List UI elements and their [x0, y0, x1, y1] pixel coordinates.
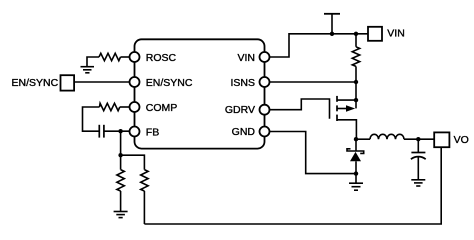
node divider junction — [118, 153, 122, 157]
VO terminal box — [434, 132, 449, 147]
op-amp U1 (controller IC body) — [135, 39, 265, 148]
wire COMP resistor to capacitor — [83, 107, 100, 131]
wire diode anode to ground node — [355, 161, 357, 173]
resistor R_FB_low — [117, 170, 124, 191]
svg-text:ISNS: ISNS — [230, 77, 255, 89]
wire GDRV pin to gate — [270, 99, 330, 119]
inductor L1 — [370, 134, 404, 139]
wire COMP pin to resistor — [120, 106, 130, 108]
pin VIN — [260, 52, 270, 62]
node EN/SYNC terminal box — [61, 75, 75, 90]
node switch node — [354, 137, 358, 141]
wire FB node down — [120, 131, 122, 155]
svg-text:GND: GND — [232, 126, 256, 138]
wire ISNS pin to node — [270, 81, 357, 83]
transistor Q1 (NMOS) — [336, 96, 338, 121]
ground (power) — [355, 174, 357, 183]
capacitor C_OUT (polarized) — [411, 152, 425, 154]
svg-text:GDRV: GDRV — [225, 104, 255, 116]
node rail-bar junction — [330, 32, 334, 36]
wire junction to lower resistor — [120, 155, 122, 169]
wire bottom feedback rail — [144, 147, 441, 224]
svg-text:VO: VO — [454, 134, 469, 146]
wire GND pin to ground node — [270, 132, 357, 174]
node rail-resistor junction — [354, 32, 358, 36]
resistor R_ISNS — [352, 47, 359, 67]
wire capacitor to FB node — [104, 130, 130, 132]
node ISNS junction — [354, 80, 358, 84]
pin GND — [260, 127, 270, 137]
wire EN/SYNC box to pin — [74, 81, 129, 83]
svg-text:EN/SYNC: EN/SYNC — [146, 77, 193, 89]
svg-text:FB: FB — [146, 126, 159, 138]
pin EN/SYNC — [130, 77, 140, 87]
resistor R_ROSC — [99, 53, 121, 60]
ground (FB divider) — [114, 212, 128, 218]
pin COMP — [130, 102, 140, 112]
wire VIN pin to input rail — [270, 34, 369, 57]
wire resistor to ground — [120, 191, 122, 211]
svg-text:COMP: COMP — [146, 102, 178, 114]
node drain junction — [354, 98, 358, 102]
pin ROSC — [130, 52, 140, 62]
svg-text:VIN: VIN — [237, 52, 255, 64]
node FB junction — [118, 129, 122, 133]
VIN terminal box — [368, 27, 382, 41]
ground (ROSC) — [81, 67, 95, 73]
resistor R_FB_top — [141, 170, 148, 191]
wire rail to sense resistor — [355, 34, 357, 47]
diode D1 (Schottky) — [347, 149, 364, 154]
wire output node to capacitor — [417, 139, 419, 152]
wire switch node to inductor — [356, 138, 370, 140]
node output junction — [416, 137, 420, 141]
pin GDRV — [260, 105, 270, 115]
wire resistor to ground corner — [87, 57, 99, 66]
wire ISNS node to MOSFET drain — [355, 82, 357, 108]
wire inductor to output node — [404, 138, 434, 140]
svg-text:ROSC: ROSC — [146, 52, 177, 64]
wire junction to upper divider resistor — [121, 155, 145, 169]
wire resistor to ISNS node — [355, 66, 357, 82]
capacitor C_COMP — [99, 125, 104, 138]
ground (output cap) — [411, 180, 425, 186]
svg-text:VIN: VIN — [387, 28, 405, 40]
pin ISNS — [260, 77, 270, 87]
node diode-ground junction — [354, 171, 358, 175]
wire ROSC pin to resistor — [121, 56, 130, 58]
wire capacitor to ground — [417, 157, 419, 180]
wire resistor to bottom rail — [143, 191, 145, 224]
svg-text:EN/SYNC: EN/SYNC — [12, 77, 59, 89]
wire switch node to diode — [355, 139, 357, 151]
power rail symbol (VIN bar) — [331, 14, 333, 34]
resistor R_COMP — [100, 103, 120, 110]
pin FB — [130, 127, 140, 137]
